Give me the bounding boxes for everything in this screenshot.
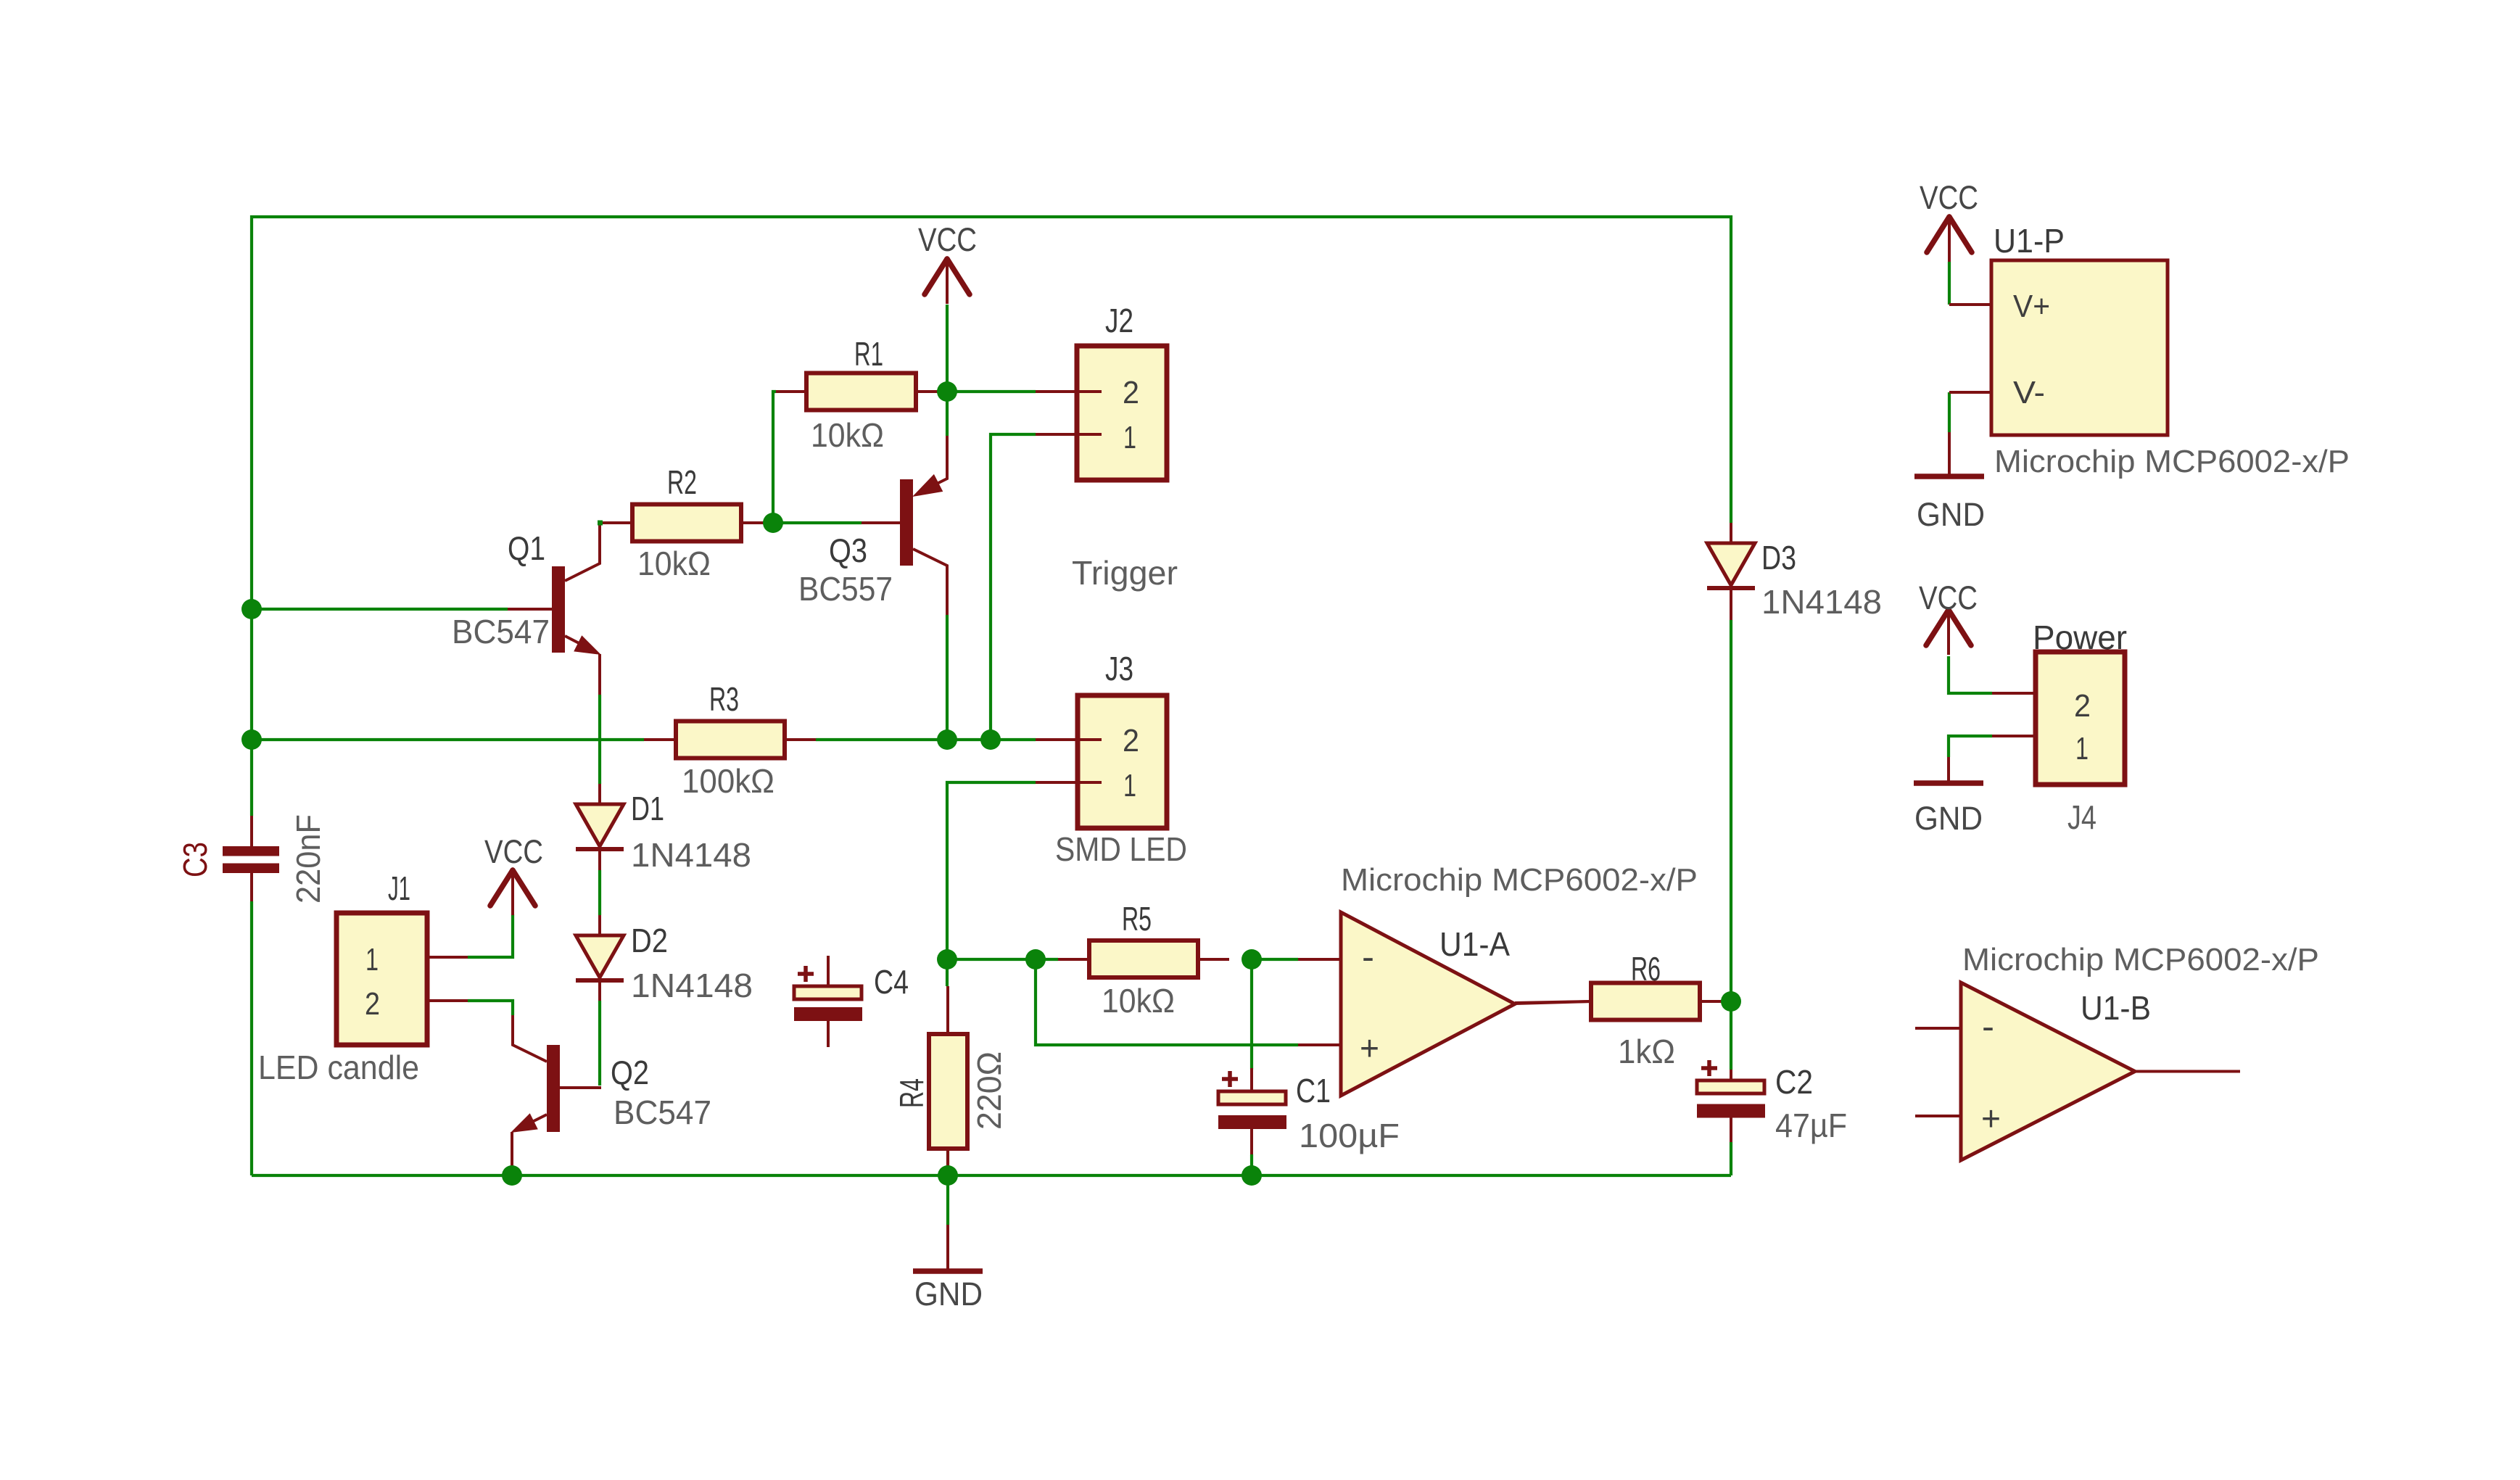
junction Q2 emitter / GND rail	[502, 1165, 522, 1186]
svg-text:R4: R4	[893, 1078, 930, 1108]
wire right rail D3 to output junction	[1730, 620, 1732, 1001]
svg-text:1kΩ: 1kΩ	[1618, 1033, 1675, 1070]
diode D1	[576, 804, 624, 849]
junction J2 pin1 / J3 row	[980, 729, 1001, 750]
wire R1 left to R2 right junction	[773, 392, 776, 523]
diode D1 anode pin	[598, 784, 601, 804]
wire U1-P V- to GND stem	[1948, 392, 1951, 432]
capacitor C1	[1218, 1068, 1286, 1154]
svg-text:C2: C2	[1775, 1063, 1813, 1101]
junction R1 right / VCC	[937, 381, 957, 402]
svg-text:R3: R3	[709, 680, 739, 718]
junction R4 bottom / GND rail	[938, 1165, 958, 1186]
svg-text:GND: GND	[914, 1276, 983, 1312]
svg-text:Power: Power	[2033, 619, 2127, 656]
junction R5 right / C1	[1242, 949, 1262, 970]
svg-text:Q2: Q2	[611, 1054, 649, 1091]
wire C1 bottom to GND rail	[1250, 1154, 1253, 1175]
diode D3 cathode pin	[1730, 588, 1732, 620]
svg-text:D3: D3	[1761, 539, 1796, 576]
svg-text:C1: C1	[1296, 1072, 1331, 1109]
wire R4 junction to R5 junction	[947, 958, 1036, 961]
wire R1 junction to J2 pin 2	[947, 390, 1036, 393]
wire J4 GND stem to pin 1	[1949, 736, 1992, 757]
svg-text:LED candle: LED candle	[258, 1049, 419, 1086]
junction left rail / R3 row	[241, 729, 262, 750]
junction R2 right / R1 left	[763, 513, 783, 533]
transistor Q1 BC547	[508, 521, 632, 695]
junction J3 pin1 / R4 top	[937, 949, 957, 970]
svg-text:47µF: 47µF	[1775, 1107, 1847, 1144]
svg-text:100kΩ: 100kΩ	[682, 762, 774, 800]
wire output junction to C2	[1730, 1001, 1732, 1070]
svg-text:D1: D1	[631, 790, 664, 827]
svg-text:J3: J3	[1105, 650, 1133, 687]
svg-text:D2: D2	[631, 922, 668, 959]
svg-text:V+: V+	[2013, 289, 2050, 324]
wire U1-P VCC stem	[1948, 262, 1951, 305]
capacitor C3	[223, 816, 279, 901]
wire R4 bottom to GND rail	[946, 1149, 949, 1175]
svg-text:Q1: Q1	[508, 529, 545, 567]
svg-text:BC547: BC547	[452, 613, 550, 650]
resistor R6	[1515, 983, 1731, 1020]
svg-text:BC557: BC557	[798, 570, 893, 608]
svg-text:V-: V-	[2013, 375, 2045, 410]
svg-text:Trigger: Trigger	[1072, 554, 1178, 592]
junction R6 right / D3 / C2	[1721, 991, 1741, 1012]
svg-text:U1-A: U1-A	[1439, 925, 1510, 963]
svg-text:GND: GND	[1917, 496, 1985, 533]
svg-text:1: 1	[365, 942, 379, 977]
wire Q1 emitter to D1	[598, 695, 601, 784]
power symbol VCC	[484, 833, 543, 915]
wire J2 pin 1 down to J3 row	[991, 434, 1036, 740]
diode D3 anode pin	[1730, 523, 1732, 543]
resistor R4	[929, 986, 967, 1175]
wire left rail to R3	[252, 738, 644, 741]
wire bottom GND rail	[252, 1174, 1731, 1177]
svg-text:R6: R6	[1631, 950, 1661, 988]
svg-text:10kΩ: 10kΩ	[637, 545, 711, 582]
svg-text:R2: R2	[667, 463, 697, 501]
junction Q3 collector / J3 row	[937, 729, 957, 750]
diode D3	[1707, 543, 1755, 588]
svg-text:VCC: VCC	[1919, 579, 1978, 616]
svg-text:2: 2	[365, 986, 380, 1022]
svg-text:10kΩ: 10kΩ	[1102, 982, 1175, 1020]
svg-text:J4: J4	[2067, 798, 2096, 836]
svg-text:2: 2	[1123, 375, 1139, 410]
svg-text:VCC: VCC	[484, 833, 543, 870]
svg-text:10kΩ: 10kΩ	[811, 416, 884, 454]
svg-text:Microchip MCP6002-x/P: Microchip MCP6002-x/P	[1962, 942, 2319, 977]
connector J4 Power	[1992, 652, 2125, 785]
svg-text:VCC: VCC	[1920, 179, 1978, 216]
wire D2 to Q2 base	[598, 1001, 601, 1086]
op-amp U1-A	[1298, 912, 1591, 1096]
svg-text:1: 1	[2075, 731, 2089, 766]
wire junction to Q3 base	[773, 521, 862, 524]
diode D2 anode pin	[598, 915, 601, 935]
svg-text:C3: C3	[176, 842, 214, 877]
svg-text:+: +	[1981, 1100, 2001, 1138]
wire junction down to R4 top	[946, 959, 949, 986]
wire GND rail to GND symbol stem	[946, 1175, 949, 1225]
svg-text:+: +	[1360, 1030, 1379, 1068]
svg-text:220Ω: 220Ω	[970, 1051, 1008, 1130]
wire J3 pin 1 down to R4 junction	[947, 782, 1036, 959]
wire J4 VCC stem to pin 2	[1949, 656, 1992, 693]
capacitor C2	[1697, 1060, 1765, 1142]
connector J1 LED candle	[336, 913, 468, 1045]
svg-text:R1: R1	[854, 335, 883, 373]
junction left rail / Q1 base	[241, 599, 262, 619]
power symbol VCC	[918, 221, 977, 304]
wire D1 to D2	[598, 870, 601, 915]
diode D2 cathode pin	[598, 980, 601, 1001]
svg-text:1N4148: 1N4148	[631, 836, 751, 874]
diode D2	[576, 935, 624, 980]
svg-text:VCC: VCC	[918, 221, 977, 258]
resistor R2	[603, 505, 773, 542]
svg-text:GND: GND	[1914, 800, 1983, 837]
svg-text:-: -	[1982, 1008, 1994, 1046]
svg-text:100µF: 100µF	[1299, 1117, 1400, 1154]
svg-text:Microchip MCP6002-x/P: Microchip MCP6002-x/P	[1341, 862, 1698, 898]
wire R5 right junction to op-amp minus input	[1252, 958, 1298, 961]
svg-text:1N4148: 1N4148	[631, 967, 753, 1004]
svg-text:Q3: Q3	[829, 532, 867, 569]
diode D1 cathode pin	[598, 849, 601, 870]
svg-text:2: 2	[2074, 688, 2091, 724]
junction C1 bottom / GND rail	[1242, 1165, 1262, 1186]
wire VCC stem to R1 right junction	[946, 305, 949, 392]
wire feedback down to op-amp plus input	[1036, 959, 1298, 1045]
transistor Q3 BC557 PNP	[862, 436, 947, 615]
ground symbol GND	[1914, 757, 1983, 837]
ground symbol GND	[913, 1225, 983, 1312]
ground symbol GND	[1914, 432, 1985, 533]
svg-text:U1-B: U1-B	[2081, 989, 2151, 1027]
wire Q1 base from left rail	[252, 608, 508, 611]
svg-text:220nF: 220nF	[289, 814, 327, 904]
connector J3 SMD LED	[1036, 695, 1167, 828]
svg-text:1: 1	[1123, 420, 1136, 455]
junction R5 left / feedback	[1025, 949, 1046, 970]
svg-text:SMD LED: SMD LED	[1055, 830, 1187, 868]
svg-text:Microchip MCP6002-x/P: Microchip MCP6002-x/P	[1994, 444, 2350, 479]
wire VCC top rail	[252, 217, 1731, 816]
svg-text:C4: C4	[874, 963, 909, 1001]
power symbol VCC	[1920, 179, 1978, 262]
transistor Q2 BC547 mirrored	[511, 1015, 601, 1175]
wire R5 left junction to R5	[1036, 958, 1058, 961]
wire R3 to J3 pin 2 row	[816, 738, 1036, 741]
wire J1 pin 2 to Q2 collector	[468, 1001, 513, 1015]
svg-text:1: 1	[1123, 768, 1136, 803]
svg-text:J2: J2	[1105, 302, 1133, 339]
wire R1 junction to Q3 emitter	[946, 392, 949, 436]
connector J2 Trigger	[1036, 346, 1167, 480]
svg-text:J1: J1	[388, 869, 410, 907]
wire J1 pin 1 to VCC	[468, 914, 513, 957]
power symbol VCC	[1919, 579, 1978, 655]
svg-text:-: -	[1362, 938, 1374, 977]
resistor R3	[644, 722, 816, 758]
wire left rail below C3	[250, 901, 253, 1175]
svg-text:1N4148: 1N4148	[1761, 583, 1882, 621]
wire C2 to bottom rail corner	[1730, 1142, 1732, 1175]
wire R5 right junction down to C1	[1250, 959, 1253, 1070]
svg-text:2: 2	[1123, 723, 1139, 758]
capacitor C4	[794, 956, 862, 1047]
op-amp U1-B	[1915, 983, 2240, 1160]
resistor R1	[776, 373, 947, 410]
svg-text:BC547: BC547	[614, 1094, 711, 1131]
resistor R5	[1058, 940, 1229, 977]
svg-text:R5: R5	[1122, 900, 1152, 938]
wire Q3 collector down to J3 row	[946, 615, 949, 740]
op-amp power block U1-P	[1949, 260, 2168, 435]
svg-text:U1-P: U1-P	[1994, 222, 2065, 260]
